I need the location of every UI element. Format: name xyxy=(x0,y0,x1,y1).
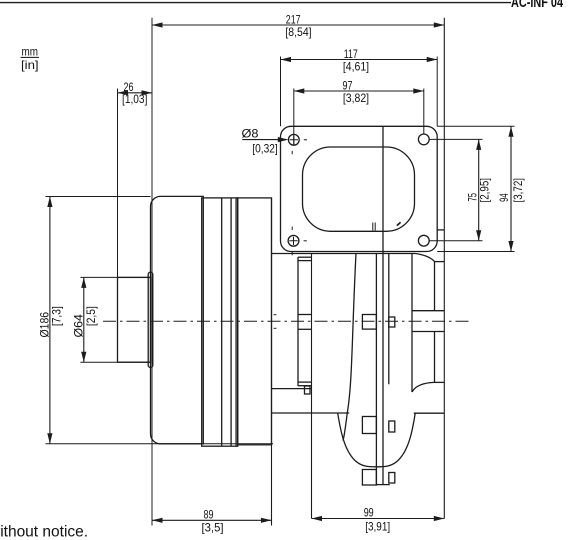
26 ext left xyxy=(117,89,119,363)
arrow 117 left xyxy=(281,57,292,62)
top border line xyxy=(0,2,511,4)
75 ext top xyxy=(429,138,482,140)
motor band line 1 xyxy=(221,198,223,446)
svg-text:99: 99 xyxy=(364,506,374,520)
spacer bottom notch xyxy=(305,386,311,394)
outlet floor line xyxy=(435,381,445,383)
svg-text:[3,91]: [3,91] xyxy=(365,519,390,533)
outlet inner vertical upper xyxy=(434,262,436,311)
hole top-left dash east xyxy=(304,139,307,141)
svg-text:[0,32]: [0,32] xyxy=(252,142,277,156)
motor front plate edge (extends to 89 dim) xyxy=(271,198,273,526)
arrow 94 bottom xyxy=(508,241,513,252)
volute outer right edge / 217+99 extension xyxy=(443,18,445,519)
arrow 26 right xyxy=(142,90,153,95)
arrow 75 bottom xyxy=(476,230,481,241)
arrow 75 top xyxy=(476,139,481,150)
arrow 99 left xyxy=(312,516,323,521)
flange left edge upper extension (117 ext) xyxy=(280,57,282,127)
svg-text:[2,95]: [2,95] xyxy=(477,178,491,203)
spacer bottom cap line1 xyxy=(298,381,312,383)
hole top-right xyxy=(418,134,429,145)
volute top edge (side view) xyxy=(272,253,416,255)
rear hub xyxy=(118,277,151,362)
spacer top cap line2 xyxy=(298,260,312,262)
hole bottom-left dash east xyxy=(304,240,307,242)
spacer strip left xyxy=(297,257,299,386)
dim line 94 xyxy=(510,126,512,251)
arrow 99 right xyxy=(434,516,445,521)
outlet pocket floor xyxy=(434,261,444,263)
centerline xyxy=(103,320,469,322)
dim line 99 xyxy=(312,518,445,520)
dia186 ext bottom xyxy=(46,443,274,445)
hole bottom-left cross xyxy=(289,237,297,245)
obround bottom dot xyxy=(397,222,401,225)
outlet wall curve to shelf xyxy=(412,382,435,392)
motor band line 2 xyxy=(230,198,232,446)
side-view flange plate line through flange xyxy=(382,126,384,484)
arrow 217 left xyxy=(152,22,163,27)
mm/in divider xyxy=(21,56,40,58)
dim line 26 xyxy=(118,92,153,94)
outlet inner vertical lower xyxy=(434,332,436,383)
svg-text:[3,5]: [3,5] xyxy=(202,520,224,534)
arrow 217 right xyxy=(434,22,445,27)
hole top-left xyxy=(288,134,299,145)
svg-text:[7,3]: [7,3] xyxy=(50,306,64,326)
svg-text:[8,54]: [8,54] xyxy=(285,25,311,39)
hole bottom-left dash north xyxy=(291,227,293,230)
dia8 leader line xyxy=(242,139,286,141)
dim line 97 xyxy=(294,90,424,92)
shelf line low xyxy=(272,412,350,414)
flange right edge upper extension (117 ext) xyxy=(436,57,438,127)
94 ext bottom xyxy=(437,251,514,253)
clip bottom left xyxy=(362,470,376,486)
arrow 117 right xyxy=(427,57,438,62)
arrow 26 left xyxy=(118,90,129,95)
clip upper left xyxy=(362,315,376,330)
flange opening (obround) xyxy=(303,147,415,231)
217/89 ext left long xyxy=(151,18,153,526)
strip bottom closure xyxy=(376,484,389,486)
arrow 94 top xyxy=(508,126,513,137)
spacer mid line1 xyxy=(298,314,312,316)
arrow dia186 bottom xyxy=(47,433,52,444)
side-view plate right line xyxy=(388,254,390,385)
hole bottom-left xyxy=(288,235,299,246)
97 ext right xyxy=(423,89,425,135)
clip upper right xyxy=(389,317,395,327)
spacer bottom cap line2 xyxy=(298,385,312,387)
motor band section xyxy=(202,198,238,446)
outlet right wall below flange xyxy=(411,254,413,393)
outlet box top xyxy=(412,310,444,312)
obround bottom tick 1 xyxy=(373,223,375,231)
svg-text:without notice.: without notice. xyxy=(0,523,88,540)
94 ext top xyxy=(437,125,514,127)
arrow dia186 top xyxy=(47,197,52,208)
motor front drum xyxy=(238,198,272,445)
97 ext left xyxy=(293,89,295,145)
scroll bottom arc xyxy=(338,413,416,467)
svg-text:Ø8: Ø8 xyxy=(242,127,259,141)
outlet pocket arc xyxy=(415,254,434,262)
arrow 97 left xyxy=(294,88,305,93)
svg-text:mm: mm xyxy=(22,45,39,59)
clip mid right xyxy=(389,421,395,432)
svg-text:[4,61]: [4,61] xyxy=(343,59,369,73)
hole bottom-right xyxy=(418,235,429,246)
svg-text:[in]: [in] xyxy=(21,58,39,72)
motor edge tick 1 xyxy=(274,314,277,316)
svg-text:[3,82]: [3,82] xyxy=(343,91,369,105)
svg-text:[1,03]: [1,03] xyxy=(122,92,147,106)
dim line dia64 xyxy=(83,277,85,362)
dim line 117 xyxy=(281,59,438,61)
clip bottom right xyxy=(389,473,395,484)
shelf line mid xyxy=(272,388,312,390)
hole bottom-left dash south xyxy=(291,251,293,255)
arrow 89 right xyxy=(261,518,272,523)
motor band line 3 xyxy=(235,198,237,446)
motor can (left cylinder body) xyxy=(150,196,203,443)
dim line 75 xyxy=(478,139,480,240)
svg-text:94: 94 xyxy=(497,193,511,202)
75 ext bottom xyxy=(429,240,482,242)
svg-text:[3,72]: [3,72] xyxy=(511,178,525,203)
svg-text:AC-INF 04: AC-INF 04 xyxy=(511,0,563,11)
hole top-left cross xyxy=(290,136,298,144)
dim line dia186 xyxy=(49,197,51,444)
spacer mid line2 xyxy=(298,328,312,330)
outlet box bottom xyxy=(412,331,444,333)
scroll spiral xyxy=(343,254,356,441)
mounting flange outline (front view) xyxy=(281,126,438,251)
arrow dia8 leader xyxy=(278,137,289,142)
hub lip xyxy=(148,272,153,367)
svg-text:[2,5]: [2,5] xyxy=(84,306,98,326)
arrow 89 left xyxy=(152,518,163,523)
hole top-left dash south xyxy=(291,151,293,154)
arrow dia64 bottom xyxy=(81,352,86,363)
dim line 217 xyxy=(152,24,444,26)
motor edge tick 2 xyxy=(274,327,277,329)
dia64 ext bottom xyxy=(80,361,150,363)
outlet pocket top line xyxy=(437,229,445,231)
dim line 89 xyxy=(152,519,272,521)
clip mid left xyxy=(362,417,376,434)
dia64 ext top xyxy=(80,276,150,278)
volute left edge / 99 extension xyxy=(311,254,313,519)
outlet shelf line right xyxy=(414,412,445,414)
side-view scroll wall line xyxy=(375,254,377,485)
arrow 97 right xyxy=(413,88,424,93)
spacer top cap line1 xyxy=(298,256,312,258)
arrow dia64 top xyxy=(81,277,86,288)
dia186 ext top xyxy=(46,196,151,198)
